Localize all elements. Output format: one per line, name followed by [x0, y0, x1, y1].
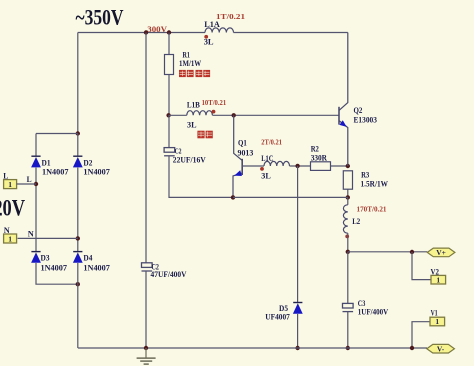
svg-text:9013: 9013 [238, 148, 254, 157]
svg-text:1N4007: 1N4007 [42, 168, 69, 177]
inductor L1B [187, 111, 213, 116]
wire C3 bottom stub [347, 312, 349, 348]
svg-text:D3: D3 [41, 253, 50, 262]
phase dot of L1A [204, 35, 208, 39]
transistor Q1 collector [234, 115, 243, 160]
inductor L2 [343, 205, 347, 233]
svg-text:1N4007: 1N4007 [83, 264, 110, 273]
svg-text:R2: R2 [311, 144, 319, 153]
svg-text:~350V: ~350V [76, 4, 124, 29]
value 1N4007 of D1 [42, 168, 69, 177]
transistor Q2 bar [338, 107, 340, 125]
value 47UF/400V [151, 270, 187, 279]
svg-text:L1C: L1C [261, 153, 273, 163]
wire D1 top stub [35, 134, 37, 157]
node 300V label [147, 24, 168, 34]
value 9013 [238, 148, 254, 157]
label L2 [352, 216, 360, 226]
junction top rail / left rail [144, 30, 148, 34]
wire D5 bottom stub [297, 314, 299, 348]
value 330R [311, 153, 327, 162]
junction L input [34, 182, 38, 186]
wire Q1 base stub [242, 165, 264, 167]
wire bridge top drop [77, 33, 79, 134]
junction V1 / bottom rail [410, 346, 414, 350]
wire top rail left segment [78, 32, 205, 34]
wire top rail right segment [234, 32, 348, 34]
label L1C [261, 153, 273, 163]
note self-feed (CJK red) [197, 131, 212, 139]
inductor L1A [205, 28, 234, 33]
label L port [3, 170, 8, 180]
diode D1 [31, 156, 41, 167]
junction V+ wire / V2 branch [410, 250, 414, 254]
label N port [4, 225, 11, 235]
svg-text:220V: 220V [0, 195, 25, 221]
transistor Q1 emitter arrow [234, 170, 242, 176]
wire V+ feed [348, 251, 428, 253]
node 220V label [0, 195, 25, 221]
inductor L1C [264, 161, 290, 166]
wire left rail upper (300V to C2+) [145, 33, 147, 263]
connector V2 pin 1 [431, 275, 446, 284]
junction R3/L2/mid rail [346, 195, 350, 199]
svg-text:2T/0.21: 2T/0.21 [261, 138, 282, 147]
wire L input [17, 183, 36, 185]
value 1M/1W [179, 59, 201, 68]
pin 3L of L1B [187, 119, 197, 129]
wire N input [18, 237, 78, 239]
svg-text:C2: C2 [175, 146, 182, 155]
svg-text:R3: R3 [361, 170, 369, 179]
pin 3L of L1A [204, 37, 214, 47]
diode D3 [31, 252, 41, 263]
svg-text:1: 1 [8, 234, 12, 243]
resistor R2 [311, 162, 331, 171]
diode D2 [73, 156, 83, 167]
svg-text:L2: L2 [352, 216, 360, 226]
ground symbol [137, 348, 156, 364]
svg-text:L: L [27, 174, 32, 184]
wire L1C to R2 [290, 165, 311, 167]
junction bridge bottom [76, 282, 80, 286]
label L1B [187, 100, 200, 110]
label V2 [431, 268, 440, 277]
svg-text:330R: 330R [311, 153, 327, 162]
junction top rail / R1 [167, 30, 171, 34]
port V- [427, 344, 455, 353]
connector V1 pin 1 [430, 317, 445, 326]
svg-text:1: 1 [435, 317, 439, 326]
svg-text:1N4007: 1N4007 [83, 168, 110, 177]
wire R2 to emitter node [331, 165, 348, 167]
port L pin 1 [4, 180, 17, 189]
svg-text:L1B: L1B [187, 100, 200, 110]
wire L2 top stub [347, 197, 349, 204]
port N pin 1 [4, 234, 17, 243]
value 1T/0.21 for L1A [216, 12, 245, 21]
value 1N4007 of D4 [83, 264, 110, 273]
wire mid rail Q1e to L2 node [233, 196, 348, 198]
label D1 [42, 158, 51, 167]
wire bridge top connector [36, 133, 78, 135]
svg-text:1T/0.21: 1T/0.21 [216, 12, 245, 21]
wire V1 branch [412, 322, 430, 348]
wire bottom rail [78, 347, 427, 349]
svg-text:V-: V- [437, 344, 445, 353]
label C3 [358, 299, 366, 308]
svg-text:3L: 3L [187, 119, 197, 129]
junction L1B wire / Q1 collector [232, 113, 236, 117]
svg-text:D2: D2 [83, 158, 92, 167]
label D5 [279, 304, 288, 313]
label Q1 [238, 139, 247, 148]
value 1.5R/1W [361, 179, 389, 188]
value UF4007 [265, 313, 290, 322]
label D3 [41, 253, 50, 262]
wire L1B to Q2 base [212, 114, 339, 116]
label R3 [361, 170, 369, 179]
wire R3 to L2 node [347, 189, 349, 197]
port V+ [427, 248, 455, 257]
wire left rail lower (C2- to ground rail) [145, 271, 147, 348]
value 22UF/16V [173, 156, 206, 165]
value 1UF/400V [358, 307, 389, 316]
value 170T/0.21 for L2 [357, 205, 387, 214]
wire D2-D4 column [77, 168, 79, 252]
capacitor C3 [343, 303, 354, 311]
resistor R3 [343, 171, 352, 189]
transistor Q2 collector [339, 33, 348, 111]
svg-text:Q2: Q2 [354, 106, 363, 115]
svg-text:Q1: Q1 [238, 139, 247, 148]
diode D5 [293, 303, 303, 314]
junction L1C/R2/D5 [295, 164, 299, 168]
label D2 [83, 158, 92, 167]
wire R1 top stub [168, 33, 170, 55]
svg-text:D4: D4 [83, 253, 92, 262]
node ~350V label [76, 4, 124, 29]
svg-text:3L: 3L [261, 171, 271, 181]
svg-text:1: 1 [436, 275, 440, 284]
capacitor C2 47UF/400V [142, 263, 153, 271]
wire D1-D3 column [35, 168, 37, 252]
wire L1B left stub [169, 114, 187, 116]
value 10T/0.21 for L1B [202, 98, 227, 107]
junction N input [76, 236, 80, 240]
wire C3 top stub [347, 252, 349, 304]
transistor Q2 emitter [339, 121, 348, 166]
label D4 [83, 253, 92, 262]
wire R1 bottom stub [168, 75, 170, 116]
svg-text:10T/0.21: 10T/0.21 [202, 98, 227, 107]
svg-text:300V: 300V [147, 24, 168, 34]
pin 3L of L1C [261, 171, 271, 181]
phase dot of L1C [260, 167, 264, 171]
diode D4 [73, 252, 83, 263]
svg-text:V1: V1 [431, 308, 438, 317]
svg-text:UF4007: UF4007 [265, 313, 290, 322]
resistor R1 [165, 55, 174, 75]
svg-text:N: N [4, 225, 11, 235]
svg-text:1M/1W: 1M/1W [179, 59, 201, 68]
wire C2b top stub [168, 115, 170, 147]
junction D5 / bottom rail [295, 346, 299, 350]
junction ground [144, 346, 148, 350]
label C2 [175, 146, 182, 155]
value 1N4007 of D2 [83, 168, 110, 177]
junction L2/C3/V+ wire [346, 250, 350, 254]
svg-text:N: N [28, 228, 35, 238]
svg-text:D1: D1 [42, 158, 51, 167]
wire D3 bottom [36, 263, 78, 284]
svg-text:170T/0.21: 170T/0.21 [357, 205, 387, 214]
svg-text:1.5R/1W: 1.5R/1W [361, 179, 389, 188]
svg-text:1: 1 [8, 180, 12, 189]
junction bridge top [76, 131, 80, 135]
wire D5 top (to L1C/R2 node) [297, 166, 299, 303]
net label N [28, 228, 35, 238]
wire V2 branch [412, 252, 431, 280]
label L1A [204, 19, 220, 29]
junction C3 / bottom rail [346, 346, 350, 350]
transistor Q2 emitter arrow [339, 120, 346, 127]
note start-resistor (CJK red) [179, 70, 210, 77]
svg-text:1N4007: 1N4007 [41, 264, 68, 273]
label R1 [183, 51, 190, 60]
label C2 (bulk) [152, 262, 159, 271]
junction Q1 emitter / mid rail [231, 195, 235, 199]
wire C2b bottom to mid rail corner [169, 156, 233, 198]
wire D4 bottom to bottom rail [77, 263, 79, 348]
value E13003 [354, 116, 377, 125]
junction R2/Q2e/R3 [346, 164, 350, 168]
svg-text:V+: V+ [436, 248, 446, 257]
svg-text:L: L [3, 170, 8, 180]
phase dot of L1B [212, 110, 216, 114]
value 2T/0.21 for L1C [261, 138, 282, 147]
value 1N4007 of D3 [41, 264, 68, 273]
wire D2 top stub [77, 134, 79, 157]
transistor Q1 bar [241, 159, 243, 175]
capacitor C2 22UF/16V [164, 148, 175, 156]
phase dot of L2 [345, 235, 349, 239]
label R2 [311, 144, 319, 153]
net label L [27, 174, 32, 184]
junction R1/L1B/C2 [166, 113, 170, 117]
svg-text:1UF/400V: 1UF/400V [358, 307, 389, 316]
wire L2 bottom stub [347, 233, 349, 252]
svg-text:22UF/16V: 22UF/16V [173, 156, 206, 165]
label V1 [431, 308, 438, 317]
transistor Q1 emitter [233, 173, 242, 197]
svg-text:47UF/400V: 47UF/400V [151, 270, 187, 279]
label Q2 [354, 106, 363, 115]
svg-text:E13003: E13003 [354, 116, 377, 125]
